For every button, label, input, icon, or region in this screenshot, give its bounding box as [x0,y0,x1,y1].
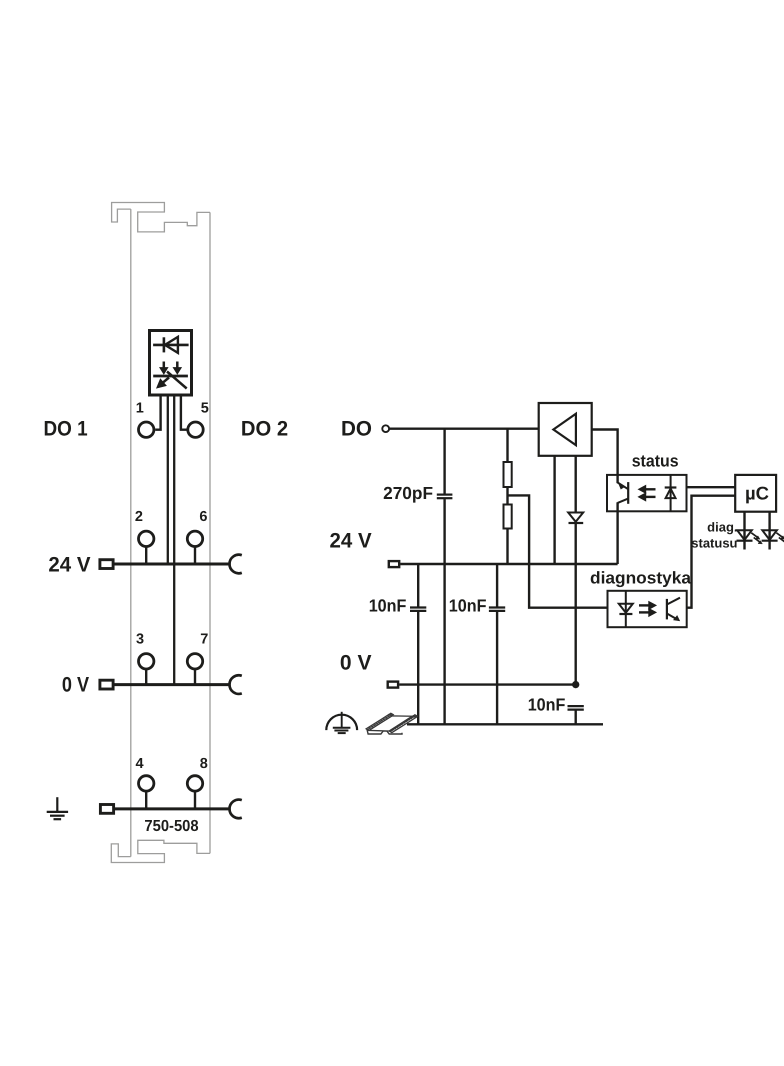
svg-text:24 V: 24 V [48,553,90,576]
svg-text:diag.: diag. [707,519,737,534]
module housing outline top profile [112,203,210,232]
label statusu [691,535,737,550]
pin number 4 [136,756,144,772]
label uC [745,482,769,503]
wire ground rail (module) [114,807,231,810]
wire 24V rail (module) [113,563,230,566]
pin number 8 [200,756,208,772]
svg-text:0 V: 0 V [62,673,89,696]
svg-text:270pF: 270pF [383,483,433,503]
label DO 2 [241,417,288,440]
diagnostyka LED diode [619,591,633,627]
svg-text:750-508: 750-508 [144,818,198,835]
wire diode to junction [575,523,577,685]
pin number 3 [136,631,144,647]
LED emission arrows symbol in indicator box [153,362,188,389]
capacitor 10nF b [489,608,505,611]
terminal square 0V (module) [100,680,113,689]
label 10nF a [369,595,407,615]
terminal circle 3 [139,654,154,669]
DO input terminal circle [382,425,389,432]
wire branch to 270pF [443,429,445,494]
wire amp pin to 24V rail [553,456,555,564]
svg-text:DO 2: DO 2 [241,417,288,440]
svg-text:1: 1 [136,400,144,416]
wire R1 to R2 [506,487,508,505]
terminal square 24V (module) [100,560,113,569]
wire uC to diagnostyka [687,496,736,608]
wire stem terminal 7 [194,669,196,685]
spring contact 0V [229,675,241,694]
svg-text:diagnostyka: diagnostyka [590,569,692,588]
svg-text:DO 1: DO 1 [44,417,88,440]
diagnostic LED 2 [762,512,784,550]
label status [632,452,679,471]
wire branch to R1 [506,429,508,462]
wire 10nF a to ground rail [417,612,419,725]
wire branch 10nF a [417,564,419,607]
label DO 1 [44,417,88,440]
pin number 7 [200,631,208,647]
wire pair left (box to 24V rail) [167,396,169,564]
svg-text:µC: µC [745,482,769,503]
pin number 6 [199,509,207,525]
svg-text:3: 3 [136,631,144,647]
wire stem terminal 8 [194,791,196,809]
wire R2 to 24V rail [506,529,508,565]
label 0 V (module) [62,673,89,696]
wire 0V rail (module) [113,683,231,686]
wire 270pF to ground rail [443,499,445,724]
module housing outline bottom profile [111,840,210,862]
terminal circle 1 [139,422,154,437]
svg-text:statusu: statusu [691,535,737,550]
wire 10nF c to ground rail [575,711,577,725]
label 270pF [383,483,433,503]
label 0 V (schematic) [340,652,372,675]
terminal circle 8 [187,776,202,791]
label 750-508 [144,818,198,835]
svg-text:10nF: 10nF [528,694,566,714]
terminal circle 4 [139,776,154,791]
wire stem terminal 4 [145,791,147,809]
module housing left edge [130,209,132,857]
diagnostic LED 1 [737,512,763,550]
wire stem terminal 3 [145,669,147,685]
wire 0V rail (schematic) [399,683,576,685]
terminal square 0V (schematic) [388,682,398,688]
diode D2 (downward) [568,513,583,524]
terminal square ground (module) [100,805,113,814]
earth symbol (schematic) [326,712,357,733]
svg-text:2: 2 [135,509,143,525]
wire stem terminal 6 [194,547,196,565]
label 10nF b [449,595,487,615]
wire pair right (box to 0V rail) [173,396,175,685]
status phototransistor [618,475,629,511]
uC box [735,475,776,512]
svg-text:10nF: 10nF [369,595,407,615]
resistor R1 [504,462,512,487]
DIN rail symbol [366,713,417,734]
wire status to uC [687,486,736,488]
wire resistor node to diagnostyka [508,495,608,607]
wire amp pin2 down [575,456,577,513]
wire DO input [389,428,539,430]
diagnostyka phototransistor [667,598,680,621]
status light arrows [638,485,655,501]
svg-text:5: 5 [201,400,209,416]
pin number 1 [136,400,144,416]
svg-text:4: 4 [136,756,144,772]
terminal circle 5 [188,422,203,437]
LED diode (left-pointing) in indicator box [153,337,189,353]
LED indicator box [150,331,192,396]
terminal circle 2 [139,531,154,546]
svg-text:6: 6 [199,509,207,525]
svg-text:status: status [632,452,679,471]
wire ground rail (schematic) [407,723,603,725]
wire status emitter to 24V rail [616,511,618,564]
wire stub pin1 [155,396,160,430]
label 10nF c [528,694,566,714]
spring contact ground [229,800,241,819]
amplifier triangle [553,414,576,445]
diagnostyka light arrows [639,601,656,616]
wire stub pin5 [181,396,187,430]
svg-text:8: 8 [200,756,208,772]
terminal square 24V (schematic) [389,561,399,567]
junction dot [572,681,579,688]
label 24 V (schematic) [330,530,372,553]
spring contact 24V [229,555,241,574]
terminal circle 6 [187,531,202,546]
capacitor 10nF a [410,608,426,611]
capacitor 270pF [437,495,453,499]
wire branch 10nF b [496,564,498,607]
diagnostyka optocoupler box [608,591,687,627]
terminal circle 7 [187,654,202,669]
pin number 5 [201,400,209,416]
wire amplifier output [592,430,618,475]
amplifier box U1 [539,403,592,456]
status LED diode [665,475,677,511]
module housing right edge [209,212,211,853]
svg-text:10nF: 10nF [449,595,487,615]
capacitor 10nF c [568,706,584,710]
label diagnostyka [590,569,692,588]
wire 10nF b to ground rail [496,612,498,725]
svg-text:24 V: 24 V [330,530,372,553]
status optocoupler box [607,475,687,511]
svg-text:7: 7 [200,631,208,647]
ground symbol (module) [47,797,68,819]
label DO (schematic) [341,417,372,440]
label 24 V (module) [48,553,90,576]
wire stem terminal 2 [145,547,147,565]
label diag. [707,519,737,534]
svg-text:0 V: 0 V [340,652,372,675]
wire 24V rail (schematic) [400,563,617,565]
resistor R2 [504,505,512,529]
svg-text:DO: DO [341,417,372,440]
pin number 2 [135,509,143,525]
